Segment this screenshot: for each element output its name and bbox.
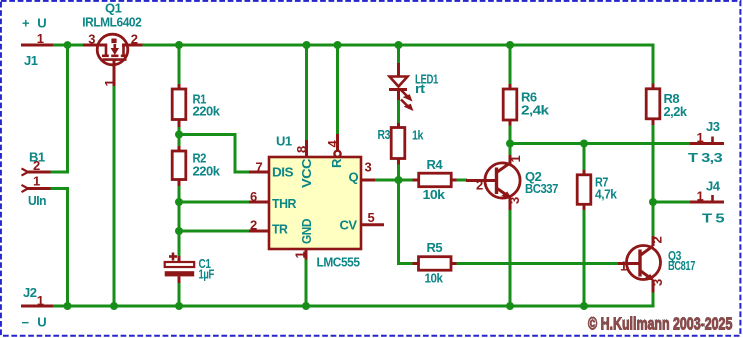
wire R2 bottom to C1 top (THR/TR node) — [178, 185, 181, 257]
junction Q output node / R3 / R4 / R5 — [395, 176, 403, 184]
connector J4 (T 5) — [690, 179, 724, 226]
U1 pin 3 Q stub — [361, 179, 375, 182]
svg-text:J3: J3 — [706, 119, 720, 134]
svg-text:6: 6 — [250, 189, 257, 204]
wire R8 bottom to Q3 collector (T 5 net) — [652, 124, 655, 236]
svg-text:Q: Q — [349, 170, 359, 185]
R8 bottom lead — [652, 119, 655, 125]
U1 pin 6 THR stub — [249, 201, 269, 204]
C1 negative plate — [165, 271, 195, 276]
connector J3 (T 3,3) — [688, 119, 724, 165]
svg-text:+: + — [22, 16, 30, 31]
wire +U rail to R1 top — [178, 45, 181, 85]
R4 body — [419, 173, 452, 187]
svg-text:1: 1 — [697, 189, 704, 204]
svg-text:1: 1 — [33, 174, 40, 189]
junction GND rail / B1 pin 1 — [64, 302, 72, 310]
capacitor C1 1uF polarized — [165, 253, 215, 284]
R5 left lead — [413, 262, 420, 265]
junction R6 / Q2 collector / J3 net — [506, 140, 514, 148]
R8 body — [646, 89, 660, 119]
R1 bottom lead — [178, 119, 181, 127]
wire Q pin 3 to R4 left — [374, 179, 413, 182]
B1 pin 2 chevron — [22, 168, 29, 175]
resistor R2 220k — [172, 146, 220, 186]
Q1 internal contacts and arrow — [105, 44, 108, 56]
wire R4 right to Q2 base — [456, 179, 467, 182]
wire node to THR pin 6 — [179, 201, 250, 204]
LED1 emission arrow 2 — [401, 100, 410, 109]
svg-text:DIS: DIS — [272, 165, 294, 180]
wire +U rail main segment (Q1 to R8 drop) — [143, 45, 654, 84]
J1 pin stub — [21, 44, 53, 47]
svg-text:2,2k: 2,2k — [664, 104, 688, 119]
wire node R1/R2 to DIS pin 7 — [179, 135, 250, 173]
junction +U rail / VCC — [303, 41, 311, 49]
junction +U rail / B1 pin 2 — [64, 41, 72, 49]
R6 top lead — [509, 84, 512, 89]
svg-text:3: 3 — [365, 160, 372, 175]
wire LED1 cathode to R3 top — [397, 99, 400, 124]
resistor R3 1k — [378, 123, 425, 165]
svg-text:U1: U1 — [276, 134, 292, 149]
junction THR node — [175, 198, 183, 206]
transistor Q2 BC337 NPN — [466, 155, 558, 210]
svg-text:10k: 10k — [425, 271, 444, 286]
svg-text:1: 1 — [620, 259, 627, 274]
junction +U rail / R6 — [506, 41, 514, 49]
R1 top lead — [178, 84, 181, 89]
svg-text:VCC: VCC — [299, 158, 314, 188]
C1 top lead — [178, 256, 181, 262]
LED1 anode lead — [397, 63, 400, 77]
svg-text:3: 3 — [650, 279, 665, 286]
B1 pin 1 stub — [28, 187, 51, 190]
wire R6 bottom to Q2 collector — [509, 125, 512, 157]
LED1 rt (red LED) — [389, 63, 438, 111]
U1 pin 1 GND stub — [305, 249, 308, 260]
junction TR node — [175, 227, 183, 235]
LED1 triangle — [390, 77, 408, 87]
Q2 base bar — [495, 168, 498, 195]
junction GND rail / C1 — [175, 302, 183, 310]
svg-text:1: 1 — [697, 130, 704, 145]
svg-text:1: 1 — [37, 31, 44, 46]
transistor Q3 BC817 NPN — [618, 236, 695, 293]
Q1 pin 2 stub (drain) — [122, 44, 143, 47]
svg-text:8: 8 — [294, 146, 309, 153]
U1 pin 7 DIS stub — [249, 171, 269, 174]
R5 body — [419, 257, 452, 271]
svg-text:GND: GND — [299, 219, 314, 244]
Q3 base stub — [618, 262, 640, 265]
svg-text:TR: TR — [272, 222, 289, 237]
wire GND rail — [51, 292, 653, 306]
wire R7 bottom to GND rail — [583, 209, 586, 306]
B1 pin 2 stub — [28, 171, 51, 174]
svg-text:2: 2 — [650, 237, 665, 244]
wire J3 net to R7 top — [583, 144, 586, 171]
Q2 body circle — [485, 163, 520, 198]
J3 pin tick — [711, 137, 714, 144]
svg-text:−: − — [22, 315, 30, 330]
net label +U — [22, 16, 46, 31]
R3 bottom lead — [397, 159, 400, 165]
wire B1 pin 1 to GND rail — [50, 189, 68, 307]
junction GND rail / Q1 gate — [110, 302, 118, 310]
svg-text:J4: J4 — [706, 179, 721, 194]
Q3 body circle — [627, 246, 661, 280]
svg-text:2: 2 — [250, 218, 257, 233]
svg-text:BC337: BC337 — [525, 181, 558, 196]
R1 body — [172, 89, 186, 120]
Q1 body circle — [97, 34, 128, 65]
svg-text:220k: 220k — [193, 104, 221, 119]
Q1 pin 3 stub (source) — [83, 44, 106, 47]
R2 top lead — [178, 146, 181, 152]
C1 plus sign — [169, 255, 177, 258]
junction R8 / Q3 collector / J4 net — [649, 198, 657, 206]
wire Q1 gate to GND rail — [113, 86, 116, 306]
resistor R5 10k — [413, 240, 457, 286]
resistor R8 2,2k — [646, 84, 688, 126]
svg-text:U: U — [37, 315, 46, 330]
svg-text:5: 5 — [368, 210, 375, 225]
net label -U — [22, 315, 47, 331]
U1 pin 2 TR stub — [249, 230, 269, 233]
R6 bottom lead — [509, 120, 512, 126]
Q3 collector segment — [640, 246, 653, 256]
svg-text:R: R — [329, 158, 344, 168]
wire R3 bottom to Q output node — [397, 164, 400, 181]
wire +U to R pin 4 — [336, 45, 339, 135]
junction GND rail / R7 bottom — [580, 302, 588, 310]
R2 body — [172, 151, 186, 180]
wire T 5 net to J4 — [653, 201, 691, 204]
R4 left lead — [413, 179, 420, 182]
op-amp/timer U1 LMC555 — [249, 134, 384, 270]
Q2 base stub — [466, 179, 497, 182]
junction +U rail / LED1 — [395, 41, 403, 49]
svg-text:1: 1 — [102, 80, 117, 87]
resistor R6 2,4k — [503, 84, 550, 126]
svg-text:T 3,3: T 3,3 — [688, 150, 722, 165]
Q3 emitter segment with arrow — [640, 271, 651, 279]
svg-text:4,7k: 4,7k — [595, 187, 618, 202]
Q2 collector segment — [497, 163, 511, 173]
B1 pin 1 chevron — [22, 185, 29, 192]
svg-text:2: 2 — [33, 158, 40, 173]
wire Q output node down to R5 left — [399, 180, 414, 264]
LED1 cathode bar — [389, 88, 407, 91]
J2 pin stub — [21, 305, 53, 308]
R3 body — [391, 128, 405, 159]
wire Q2 collector node to J3 (T 3,3 net) — [510, 142, 691, 145]
wire Q2 emitter to GND rail — [509, 209, 512, 306]
J4 pin tick — [711, 195, 714, 202]
wire GND pin 1 to GND rail — [305, 260, 308, 307]
C1 bottom lead — [178, 276, 181, 283]
R5 right lead — [451, 262, 457, 265]
wire +U rail to R6 top — [509, 45, 512, 85]
svg-text:LMC555: LMC555 — [317, 255, 360, 270]
svg-text:BC817: BC817 — [668, 258, 695, 273]
U1 pin 4 R (reset) stub — [336, 134, 339, 151]
svg-text:3: 3 — [507, 197, 522, 204]
wire +U rail to LED1 anode — [397, 45, 400, 64]
wire +U rail left segment (J1 to Q1) — [51, 44, 83, 47]
U1 pin 4 inversion circle — [334, 151, 340, 157]
R2 bottom lead — [178, 179, 181, 186]
wire node to TR pin 2 — [179, 230, 250, 233]
resistor R4 10k — [413, 157, 457, 202]
svg-text:CV: CV — [340, 218, 358, 233]
wire R1 bottom to R2 top — [178, 126, 181, 147]
svg-text:J2: J2 — [23, 285, 37, 300]
svg-text:R5: R5 — [427, 240, 443, 255]
LED1 cathode lead — [397, 91, 400, 100]
resistor R1 220k — [172, 84, 220, 127]
junction GND rail / Q2 emitter — [506, 302, 514, 310]
svg-text:THR: THR — [272, 196, 297, 211]
svg-text:R3: R3 — [378, 127, 391, 142]
svg-text:Q1: Q1 — [105, 1, 122, 16]
Q3 base bar — [638, 250, 641, 277]
svg-text:IRLML6402: IRLML6402 — [82, 15, 141, 30]
svg-text:1: 1 — [37, 293, 44, 308]
R6 body — [503, 89, 517, 120]
connector J1 — [21, 31, 53, 68]
svg-text:3: 3 — [88, 32, 95, 47]
R7 bottom lead — [583, 204, 586, 211]
wire C1 bottom to GND rail — [178, 283, 181, 307]
wire R5 right to Q3 base — [456, 262, 619, 265]
junction J3 net / R7 — [580, 140, 588, 148]
junction R1/R2/DIS node — [175, 131, 183, 139]
connector J2 — [21, 285, 53, 308]
svg-text:220k: 220k — [193, 164, 221, 179]
U1 pin 8 VCC stub — [305, 140, 308, 157]
svg-text:rt: rt — [415, 81, 426, 96]
svg-text:1µF: 1µF — [199, 267, 215, 282]
R8 top lead — [652, 84, 655, 90]
svg-text:2: 2 — [476, 178, 483, 193]
svg-text:1k: 1k — [412, 128, 424, 143]
Q2 emitter segment with arrow — [497, 188, 509, 196]
wire +U to B1 pin 2 — [50, 45, 68, 172]
junction +U rail / R pin — [334, 41, 342, 49]
R7 body — [577, 175, 591, 205]
svg-text:UIn: UIn — [28, 193, 47, 208]
J4 pin stub — [690, 201, 724, 204]
svg-text:7: 7 — [256, 160, 263, 175]
R3 top lead — [397, 123, 400, 128]
U1 body box — [269, 157, 361, 249]
svg-text:2,4k: 2,4k — [521, 103, 550, 118]
connector B1 (UIn) — [22, 150, 51, 209]
U1 pin 5 CV stub — [361, 223, 384, 226]
svg-text:U: U — [37, 16, 46, 31]
LED1 emission arrow 1 — [400, 89, 410, 99]
Q1 gate lead — [113, 60, 116, 86]
svg-text:1: 1 — [293, 252, 308, 259]
J3 pin stub — [690, 142, 724, 145]
transistor Q1 IRLML6402 P-MOSFET — [82, 1, 142, 87]
svg-text:1: 1 — [508, 156, 523, 163]
C1 positive plate — [165, 262, 195, 267]
resistor R7 4,7k — [577, 170, 617, 210]
junction +U rail / R1 — [175, 41, 183, 49]
svg-text:T 5: T 5 — [702, 211, 724, 226]
svg-text:J1: J1 — [24, 53, 38, 68]
svg-text:© H.Kullmann 2003-2025: © H.Kullmann 2003-2025 — [588, 314, 733, 334]
wire +U to VCC pin 8 — [305, 45, 308, 141]
svg-text:2: 2 — [131, 32, 138, 47]
svg-text:R4: R4 — [427, 157, 444, 172]
R4 right lead — [451, 179, 456, 182]
svg-text:10k: 10k — [423, 187, 446, 202]
junction GND rail / 555 GND pin — [302, 302, 310, 310]
R7 top lead — [583, 170, 586, 175]
